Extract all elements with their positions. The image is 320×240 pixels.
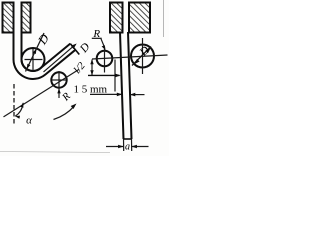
strip bottom end face xyxy=(123,138,132,140)
scan artifact: faint bottom line xyxy=(0,152,110,153)
vertical extension line at roller rim (right figure) xyxy=(114,60,116,92)
strip end face xyxy=(70,44,79,55)
crosshair vertical (small roller right) xyxy=(104,49,106,73)
roller D crosshair xyxy=(25,59,43,61)
roller R (right figure, small) xyxy=(97,51,113,67)
strip (right figure) xyxy=(120,32,124,139)
strip (left figure): outer edge - vertical, wrap arc, diagonal to end xyxy=(14,32,76,79)
scan artifact: faint right vertical line xyxy=(163,0,165,37)
right clamp block: left hatched jaw xyxy=(110,3,123,33)
strip (left figure): inner edge xyxy=(21,32,70,71)
strip axis centerline with arrowhead (left figure) xyxy=(44,47,74,72)
dimension D (left figure) xyxy=(26,33,45,72)
left clamp block: right hatched jaw xyxy=(22,3,31,33)
shared horizontal centerline through both rollers xyxy=(92,55,168,59)
svg-text:α: α xyxy=(26,115,32,127)
svg-text:D: D xyxy=(77,41,93,56)
svg-text:l/2: l/2 xyxy=(72,60,88,76)
lower reference line (right figure) with arrowhead xyxy=(88,74,120,76)
crosshair vertical (big roller right) xyxy=(142,38,144,74)
roller D (left figure, big) xyxy=(22,48,45,71)
svg-text:D: D xyxy=(35,31,52,47)
lever line L1 through small roller center xyxy=(4,69,80,117)
dashed centerline (left figure, strip axis) xyxy=(13,84,15,126)
dimension l/2 (vertical, right figure) xyxy=(91,60,93,76)
left clamp block: left hatched jaw xyxy=(3,3,14,33)
svg-text:R: R xyxy=(60,91,73,104)
angle alpha arc with arrowheads xyxy=(15,103,23,116)
roller D (right figure, big) xyxy=(131,45,154,68)
dimension a (strip thickness, bottom) xyxy=(123,139,125,151)
roller R crosshair xyxy=(52,79,66,81)
svg-text:a: a xyxy=(125,142,130,153)
curved motion arrow (left figure) xyxy=(54,106,75,120)
dimension D (right figure) xyxy=(132,47,151,66)
right clamp block: right hatched jaw xyxy=(129,3,150,33)
leader arrowhead to roller R xyxy=(57,88,60,93)
svg-text:1 5 mm: 1 5 mm xyxy=(74,84,108,96)
roller R (left figure, small) xyxy=(51,72,66,87)
